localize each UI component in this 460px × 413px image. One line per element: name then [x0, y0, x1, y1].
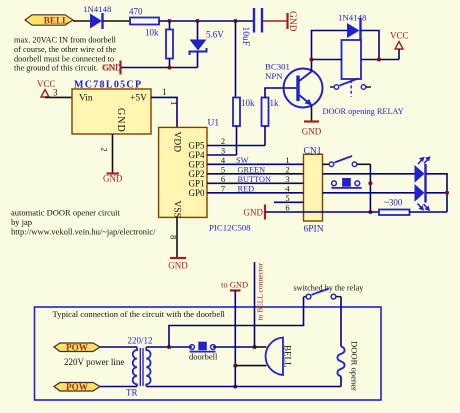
annotation paragraph: [14, 36, 122, 73]
svg-text:doorbell: doorbell: [189, 352, 218, 362]
svg-text:TR: TR: [126, 388, 138, 398]
wire to BELL connector (vertical): [255, 262, 265, 347]
junction divider gnd: [168, 66, 172, 70]
svg-text:3: 3: [53, 88, 58, 98]
svg-text:1N4148: 1N4148: [338, 13, 367, 23]
svg-text:GP3: GP3: [188, 160, 205, 170]
svg-text:GP1: GP1: [188, 179, 204, 189]
svg-text:GND: GND: [168, 261, 188, 271]
resistor 10k (to GP4): [233, 98, 255, 156]
wire CN1 pin5 stub: [274, 201, 304, 203]
capacitor 10uF: [240, 8, 262, 46]
net flag POW (top): [54, 343, 100, 353]
wire switch/button to gnd rail: [369, 164, 371, 212]
junction node A3: [234, 19, 238, 23]
svg-text:Typical connection of the circ: Typical connection of the circuit with t…: [53, 309, 226, 319]
svg-text:PIC12C508: PIC12C508: [209, 223, 251, 233]
svg-text:of course, the other wire of t: of course, the other wire of the: [14, 45, 116, 54]
switch S1 on CN1 pin1: [323, 156, 371, 167]
svg-text:220/12: 220/12: [128, 336, 153, 346]
LED cathode bar: [424, 164, 426, 203]
wire node A3 down to 10k2: [235, 21, 237, 98]
junction bell top: [253, 345, 257, 349]
ground (CN1 pin6): [244, 205, 304, 220]
annotation automatic DOOR opener: [11, 208, 156, 237]
svg-text:BUTTON: BUTTON: [238, 175, 272, 184]
wire secondary top to doorbell: [146, 346, 192, 348]
bell speaker: [235, 338, 292, 376]
svg-text:2: 2: [285, 164, 289, 174]
power port VCC (right): [390, 31, 409, 60]
svg-text:GND: GND: [115, 108, 126, 133]
svg-text:220V power line: 220V power line: [64, 357, 124, 367]
svg-text:the ground of this circuit.: the ground of this circuit.: [14, 64, 98, 73]
junction collector node: [310, 58, 314, 62]
LED D5 (red): [323, 184, 431, 211]
svg-text:10k: 10k: [145, 28, 159, 38]
IC U1 PIC12C508: [159, 119, 252, 233]
wires POW to transformer: [100, 347, 137, 387]
svg-text:5: 5: [221, 164, 225, 174]
wire BELL to D1: [73, 20, 90, 22]
wire top rail: [159, 20, 254, 22]
wire GP4 (pin3) to 10k: [207, 154, 237, 156]
wire D1 to R470: [103, 20, 130, 22]
wire GP5 (pin2) to 1k: [207, 145, 265, 147]
svg-text:3: 3: [285, 174, 289, 184]
svg-text:BELL: BELL: [283, 345, 293, 368]
svg-text:10uF: 10uF: [240, 27, 250, 47]
svg-text:+5V: +5V: [130, 94, 147, 104]
wire switch down to door opener: [340, 297, 342, 347]
junction relay/VCC node: [377, 58, 381, 62]
svg-text:to GND: to GND: [221, 280, 248, 290]
power port to GND: [221, 280, 248, 387]
wire up to relay switch line: [169, 297, 304, 347]
svg-text:470: 470: [129, 7, 143, 17]
junction node A1: [168, 19, 172, 23]
svg-text:VSS: VSS: [172, 201, 182, 218]
zener diode 5.6V: [190, 21, 225, 68]
junction transformer node: [167, 345, 171, 349]
wire BUTTON net: [207, 175, 304, 184]
svg-text:GND: GND: [103, 173, 123, 183]
svg-text:GP5: GP5: [188, 141, 205, 151]
svg-text:GP2: GP2: [188, 169, 204, 179]
svg-text:1k: 1k: [270, 98, 280, 108]
door opener coil: [337, 341, 359, 391]
transistor Q1 BC301 NPN: [265, 62, 323, 108]
junction node A2: [196, 19, 200, 23]
svg-text:switched by the relay: switched by the relay: [294, 284, 365, 293]
svg-text:~300: ~300: [384, 198, 403, 208]
svg-text:NPN: NPN: [265, 71, 283, 81]
svg-text:BC301: BC301: [265, 62, 290, 72]
wire RED net: [207, 184, 304, 193]
junction gnd rail: [368, 210, 372, 214]
wire collector up: [311, 60, 313, 72]
svg-text:DOOR opener: DOOR opener: [350, 341, 360, 391]
svg-text:GND: GND: [302, 127, 322, 137]
svg-text:6PIN: 6PIN: [304, 225, 324, 235]
svg-text:1: 1: [285, 155, 289, 165]
regulator U MC78L05CP: [72, 80, 151, 135]
svg-text:POW: POW: [66, 382, 89, 392]
relay switch contact: [330, 79, 371, 90]
net flag BELL: [25, 15, 73, 26]
svg-text:doorbell must be connected to: doorbell must be connected to: [14, 55, 114, 64]
svg-text:http://www.vekoll.vein.hu/~jap: http://www.vekoll.vein.hu/~jap/electroni…: [11, 226, 156, 236]
connector CN1: [304, 147, 324, 235]
power port VCC (left): [37, 79, 72, 98]
wire gnd rail under divider: [121, 67, 198, 69]
svg-text:VDD: VDD: [172, 132, 182, 153]
transformer TR 220/12: [126, 336, 153, 398]
svg-text:GREEN: GREEN: [238, 165, 266, 174]
svg-text:1: 1: [169, 101, 179, 105]
wire SW net: [207, 156, 304, 165]
resistor 470: [129, 7, 159, 25]
svg-text:6: 6: [221, 174, 225, 184]
junction bottom rail: [233, 385, 237, 389]
wire LED cathodes to right rail: [427, 174, 448, 212]
svg-text:10k: 10k: [241, 98, 255, 108]
wire emitter down: [311, 105, 313, 121]
svg-text:2: 2: [100, 147, 110, 151]
regulator pin 2 gnd: [100, 134, 123, 183]
svg-text:GND: GND: [103, 63, 122, 73]
svg-text:SW: SW: [236, 156, 249, 165]
resistor ~300: [304, 198, 448, 216]
relay K1 coil: [342, 40, 362, 97]
svg-text:GND: GND: [287, 11, 297, 32]
svg-text:max. 20VAC IN from doorbell: max. 20VAC IN from doorbell: [14, 36, 117, 45]
svg-text:5.6V: 5.6V: [206, 30, 224, 40]
push button S2 on CN1 pin3: [331, 178, 361, 188]
wire bottom rail: [146, 386, 341, 388]
diode D1 1N4148: [83, 4, 112, 29]
push button doorbell: [189, 342, 218, 362]
junction LED rail: [445, 191, 449, 195]
wire doorbell to bell: [213, 346, 255, 348]
resistor 1k (base): [262, 88, 297, 146]
svg-text:Vin: Vin: [79, 94, 93, 104]
svg-text:7: 7: [221, 183, 225, 193]
svg-text:POW: POW: [66, 343, 89, 353]
svg-text:GP0: GP0: [188, 188, 205, 198]
wire GREEN net: [207, 165, 304, 174]
ground (left, text GND with bar): [102, 61, 122, 75]
U1 pin numbers: [221, 136, 226, 193]
resistor 10k (input divider): [145, 21, 173, 68]
svg-text:1N4148: 1N4148: [83, 4, 112, 14]
junction bell bottom: [233, 364, 237, 368]
svg-text:6: 6: [285, 202, 289, 212]
diode D3 1N4148 (flyback): [338, 13, 367, 41]
wire cap to GND bar (red): [263, 20, 288, 22]
ground (top, rotated GND): [287, 11, 297, 32]
ground (emitter): [302, 122, 322, 137]
relay-driven switch: [294, 284, 365, 300]
wire flyback loop: [312, 31, 400, 60]
bottom section box: [35, 307, 382, 400]
svg-text:RED: RED: [238, 184, 255, 193]
svg-text:VCC: VCC: [390, 31, 409, 41]
svg-text:2: 2: [221, 136, 225, 146]
regulator pin 1 wire to U1 VDD: [151, 87, 179, 127]
svg-text:GND: GND: [244, 207, 264, 217]
svg-text:DOOR opening RELAY: DOOR opening RELAY: [323, 107, 404, 116]
svg-text:8: 8: [169, 235, 179, 239]
svg-text:5: 5: [285, 193, 289, 203]
LED D4 (green): [323, 156, 431, 183]
svg-text:1: 1: [162, 87, 167, 97]
svg-text:BELL: BELL: [44, 16, 69, 26]
svg-text:to BELL connector: to BELL connector: [256, 262, 265, 320]
net flag POW (bottom): [54, 382, 100, 392]
CN1 pin numbers: [285, 155, 290, 213]
U1 VSS pin to ground: [168, 217, 188, 270]
svg-text:U1: U1: [208, 119, 220, 129]
junction button-gnd: [368, 181, 372, 185]
